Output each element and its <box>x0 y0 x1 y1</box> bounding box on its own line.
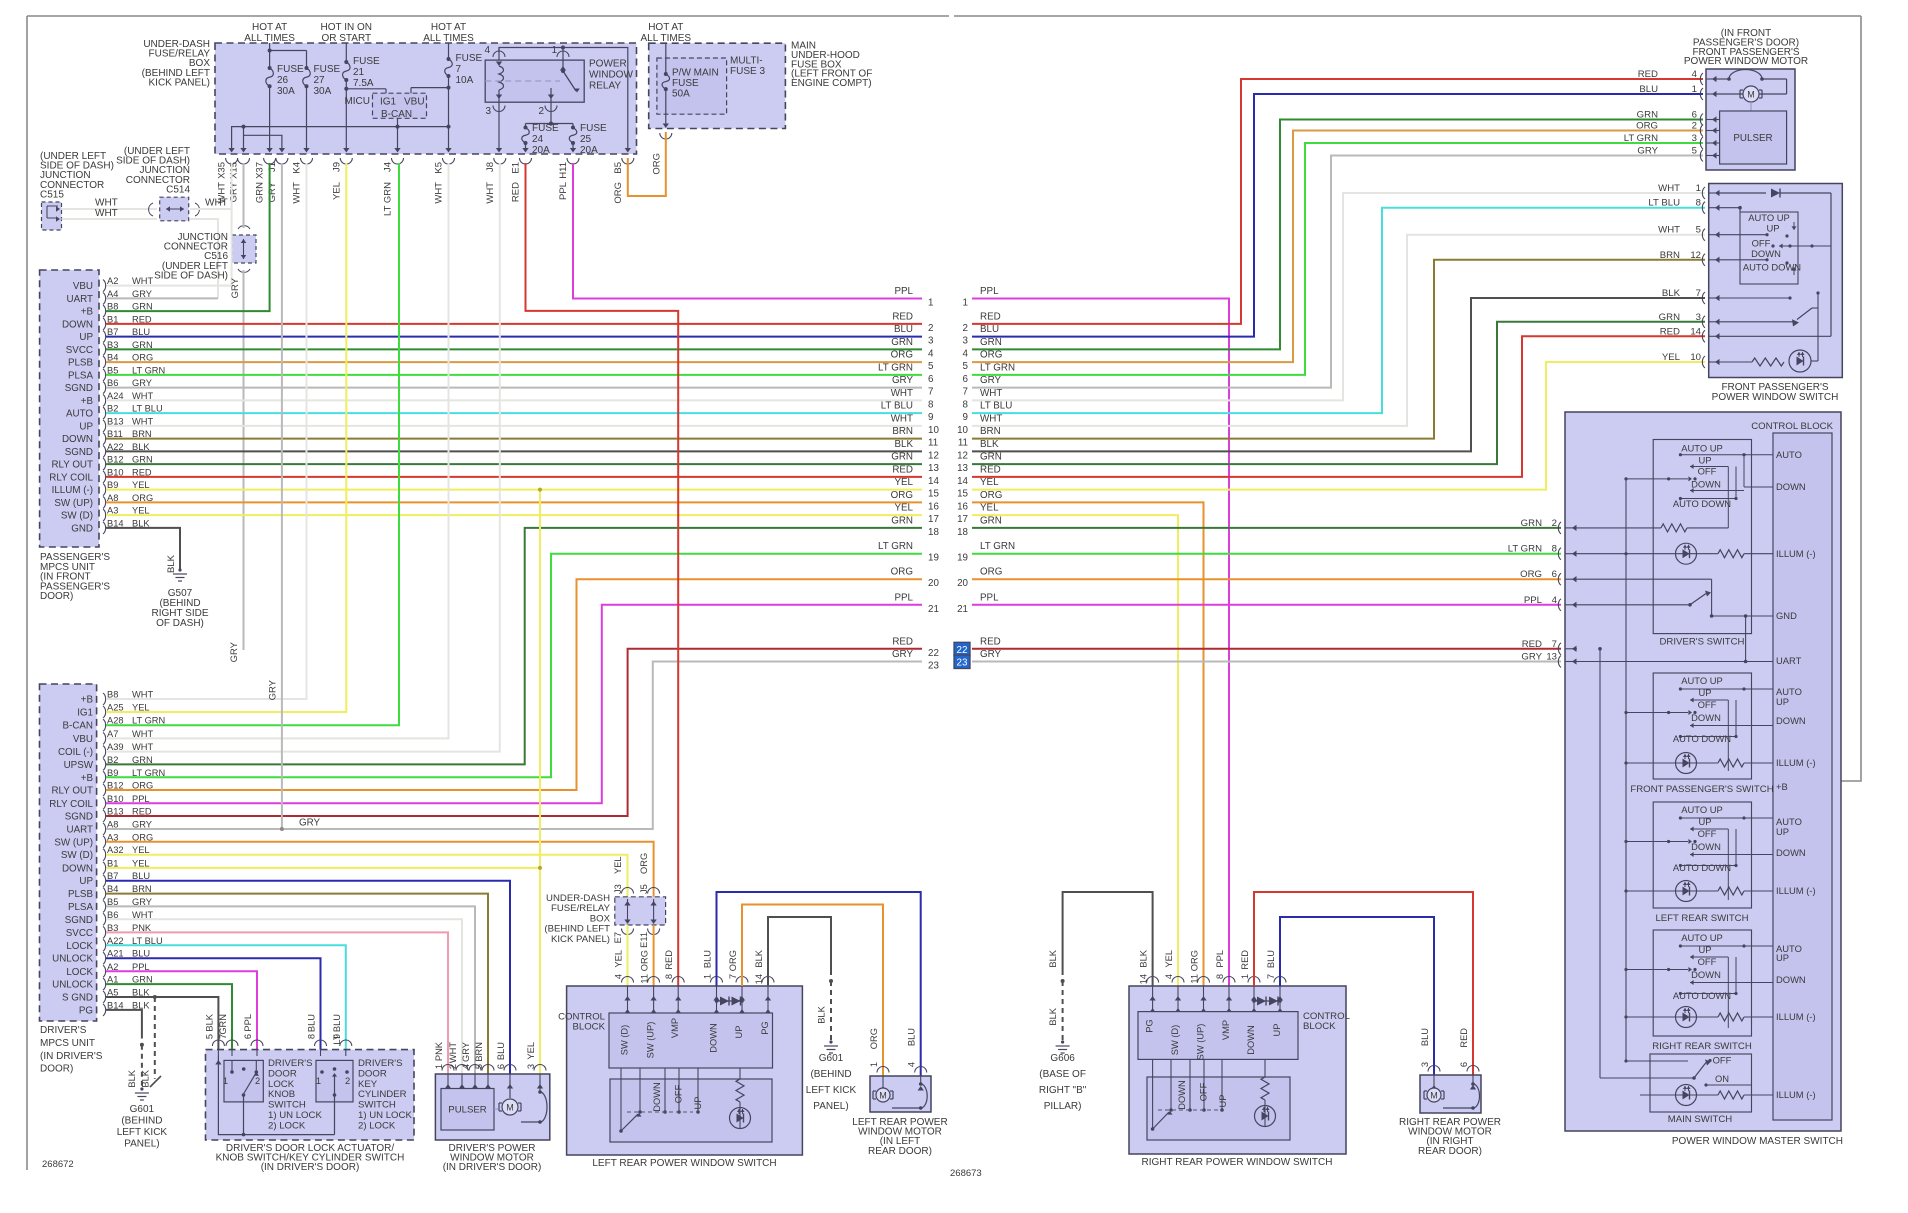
svg-text:AUTO UP: AUTO UP <box>1681 804 1723 815</box>
wire ORG 20 (right page run) <box>972 578 1561 580</box>
svg-text:G601: G601 <box>130 1104 155 1115</box>
svg-text:20A: 20A <box>580 145 598 156</box>
svg-text:GND: GND <box>1776 610 1797 621</box>
wire fuse 7 output to K5 <box>445 76 451 153</box>
svg-text:268673: 268673 <box>950 1168 982 1179</box>
wire GRN 18 (right page run) <box>972 527 1561 529</box>
svg-text:IG1: IG1 <box>380 97 397 108</box>
svg-text:DOOR: DOOR <box>268 1068 297 1079</box>
wire front passenger switch BLK row <box>1719 296 1792 299</box>
left rear power window motor label <box>852 1117 947 1157</box>
svg-text:DOWN: DOWN <box>1751 248 1781 259</box>
svg-text:5: 5 <box>1692 146 1697 157</box>
resistor and LED (right rear switch illumination) <box>1255 1077 1276 1127</box>
svg-text:1) UN LOCK: 1) UN LOCK <box>268 1110 322 1121</box>
svg-text:RED: RED <box>1240 950 1250 970</box>
svg-text:BLK: BLK <box>127 1069 137 1087</box>
wire from driver MPCS pin B5 <box>106 906 475 1074</box>
svg-text:UPSW: UPSW <box>64 760 94 771</box>
pin B7 (UP/BLU) of passenger MPCS unit <box>79 327 150 343</box>
node 10 (left page edge) <box>891 413 940 436</box>
svg-text:AUTO DOWN: AUTO DOWN <box>1673 862 1731 873</box>
svg-text:BLK: BLK <box>140 1069 150 1087</box>
wire ORG 16 (passenger MPCS A8 to inter-page node 16) <box>106 501 922 503</box>
left rear switch internal pin stubs <box>625 992 771 1013</box>
svg-text:PLSB: PLSB <box>68 889 94 900</box>
svg-text:RELAY: RELAY <box>589 81 621 92</box>
svg-text:13: 13 <box>957 463 968 474</box>
svg-text:WHT: WHT <box>448 1042 458 1063</box>
svg-text:ORG: ORG <box>1636 121 1658 132</box>
control block label ILLUM (-) <box>1776 548 1816 559</box>
svg-text:LT BLU: LT BLU <box>881 401 913 412</box>
front passenger power window motor box <box>1706 69 1795 170</box>
svg-text:J3: J3 <box>613 884 623 894</box>
pin B6 (SGND/GRY) of passenger MPCS unit <box>65 378 152 394</box>
svg-text:HOT AT: HOT AT <box>648 22 683 33</box>
svg-text:ILLUM (-): ILLUM (-) <box>1776 757 1816 768</box>
ground G606 (base of right B pillar) <box>1039 1040 1087 1112</box>
sheet number 268673 <box>950 1168 982 1179</box>
pin 7 (ORG) of left rear power window switch <box>728 950 748 1001</box>
svg-text:DOWN: DOWN <box>1776 847 1806 858</box>
svg-text:M: M <box>1747 89 1755 99</box>
pin X37 (GRN) of under-dash fuse/relay box <box>255 158 276 203</box>
pin B7 (UP/BLU) of driver MPCS unit <box>79 871 150 887</box>
svg-text:BLK: BLK <box>980 439 999 450</box>
pin 8 (PPL) of right rear power window switch <box>1215 950 1235 1001</box>
wire YEL E7 to left rear switch pin 4 <box>627 925 629 986</box>
svg-text:DOWN: DOWN <box>1691 969 1721 980</box>
svg-text:GRY: GRY <box>230 277 241 298</box>
wire from driver MPCS pin A22 <box>106 945 346 1049</box>
svg-text:5: 5 <box>928 361 934 372</box>
svg-text:8: 8 <box>1552 544 1557 555</box>
svg-text:BRN: BRN <box>474 1042 484 1062</box>
wire from driver MPCS pin B6 <box>106 919 462 1074</box>
wire from driver MPCS pin A21 <box>106 958 321 1049</box>
svg-text:DOWN: DOWN <box>1177 1080 1187 1109</box>
svg-text:3: 3 <box>928 336 934 347</box>
wire from driver MPCS pin A8 <box>106 662 922 830</box>
node 22 (right page edge, highlighted) <box>954 636 1001 656</box>
svg-text:MULTI-: MULTI- <box>730 56 763 67</box>
wire YEL 17 (right page run) <box>972 515 1178 986</box>
svg-text:GRY: GRY <box>299 818 321 829</box>
relay pin 1 <box>551 45 569 71</box>
pin A22 (LOCK/LT BLU) of driver MPCS unit <box>66 936 162 952</box>
svg-text:1: 1 <box>928 298 933 309</box>
svg-text:4: 4 <box>907 1062 917 1067</box>
svg-text:DOWN: DOWN <box>62 319 93 330</box>
svg-text:SVCC: SVCC <box>66 345 93 356</box>
relay pin 2 <box>538 102 557 123</box>
svg-text:WHT: WHT <box>205 198 228 209</box>
bus wire RED pin7 to main switch <box>1577 647 1602 1078</box>
svg-text:SIDE OF DASH): SIDE OF DASH) <box>154 270 228 281</box>
wire BLK B14 to ground G507 <box>106 528 180 573</box>
svg-text:BRN: BRN <box>1660 250 1680 261</box>
svg-text:GND: GND <box>71 523 93 534</box>
pin B6 (SGND/WHT) of driver MPCS unit <box>65 910 154 926</box>
relay coil <box>496 66 504 102</box>
svg-text:+B: +B <box>81 307 94 318</box>
control block label AUTO <box>1776 449 1802 460</box>
wire from driver MPCS pin A32 <box>106 855 628 897</box>
svg-text:SWITCH: SWITCH <box>268 1100 306 1111</box>
svg-text:AUTO UP: AUTO UP <box>1681 932 1723 943</box>
svg-text:SGND: SGND <box>65 812 93 823</box>
node 20 (right page edge) <box>957 567 1002 590</box>
wire fuse 26 output to X37 <box>266 86 272 152</box>
main switch internals <box>1600 1055 1752 1087</box>
svg-text:1: 1 <box>1696 183 1701 194</box>
ground G601 (left kick panel) <box>806 1040 857 1112</box>
power window master switch label <box>1672 1136 1843 1147</box>
svg-text:RLY COIL: RLY COIL <box>49 799 93 810</box>
svg-text:GRY: GRY <box>461 1042 471 1062</box>
svg-text:2: 2 <box>1692 121 1697 132</box>
under-dash fuse/relay box (lower) label <box>544 893 610 945</box>
svg-text:1: 1 <box>1240 974 1250 979</box>
pin 13 (GRY) of power window master switch <box>1521 652 1577 668</box>
relay top rail to B5 <box>499 46 631 153</box>
svg-text:RED: RED <box>511 182 522 202</box>
svg-text:AUTO UP: AUTO UP <box>1748 212 1790 223</box>
node 20 (left page edge) <box>891 567 940 590</box>
svg-text:8: 8 <box>664 974 674 979</box>
svg-text:1: 1 <box>703 974 713 979</box>
node 21 (right page edge) <box>957 592 999 615</box>
svg-text:GRY: GRY <box>980 649 1002 660</box>
wire BRN 11 (passenger MPCS B11 to inter-page node 11) <box>106 438 922 440</box>
node 2 (right page edge) <box>963 311 1001 334</box>
svg-text:GRN: GRN <box>891 337 913 348</box>
svg-text:+B: +B <box>81 773 94 784</box>
svg-text:SW (UP): SW (UP) <box>646 1022 656 1059</box>
driver switch section internals <box>1626 443 1773 528</box>
pin 14 (BLK) of left rear power window switch <box>754 949 774 1000</box>
right rear power window motor box <box>1420 1075 1481 1113</box>
svg-text:10: 10 <box>928 425 939 436</box>
svg-text:POWER WINDOW SWITCH: POWER WINDOW SWITCH <box>1712 392 1839 403</box>
svg-text:8: 8 <box>1696 198 1701 209</box>
resistor (driver switch auto-down) <box>1577 524 1728 532</box>
svg-text:BLU: BLU <box>1266 950 1276 968</box>
control block label DOWN <box>1776 974 1806 985</box>
svg-text:9: 9 <box>332 1034 342 1039</box>
node 13 (right page edge) <box>957 452 1002 475</box>
control block label AUTO <box>1776 816 1802 827</box>
svg-text:18: 18 <box>957 527 968 538</box>
svg-text:BLK: BLK <box>204 1013 214 1031</box>
wire from driver MPCS pin A5 <box>106 997 218 1050</box>
driver MPCS unit label <box>40 1025 103 1075</box>
svg-text:PULSER: PULSER <box>1733 133 1772 144</box>
svg-text:RED: RED <box>980 464 1001 475</box>
svg-text:B-CAN: B-CAN <box>63 721 93 732</box>
node 6 (left page edge) <box>878 362 934 385</box>
wire BLK B14 to ground G601 <box>127 1043 144 1089</box>
svg-text:DOWN: DOWN <box>1691 841 1721 852</box>
right rear switch illumination LED <box>1624 1007 1773 1028</box>
wire WHT 10 (right page run) <box>972 235 1705 426</box>
left rear control block label <box>558 1012 606 1033</box>
svg-text:RED: RED <box>892 636 913 647</box>
svg-text:6: 6 <box>1692 110 1697 121</box>
svg-text:(BEHIND: (BEHIND <box>121 1116 162 1127</box>
svg-text:4: 4 <box>963 348 969 359</box>
svg-text:20A: 20A <box>532 145 550 156</box>
svg-text:BLK: BLK <box>1662 288 1681 299</box>
driver door lock actuator box <box>206 1050 415 1140</box>
pin J9 (YEL) of under-dash fuse/relay box <box>331 158 352 200</box>
node 14 (right page edge) <box>957 464 1001 487</box>
pin 3 (GRN) of front passenger power window switch <box>1659 312 1720 328</box>
left rear switch control block <box>609 1013 773 1068</box>
pin B2 (UPSW/GRN) of driver MPCS unit <box>64 755 153 771</box>
control block label +B <box>1776 781 1788 792</box>
svg-text:BLU: BLU <box>703 950 713 968</box>
svg-text:DOWN: DOWN <box>1776 974 1806 985</box>
pin B8 (+B/GRN) of passenger MPCS unit <box>81 302 153 318</box>
wire LT BLU 9 (passenger MPCS B2 to inter-page node 9) <box>106 412 922 414</box>
node 13 (left page edge) <box>891 452 939 475</box>
node 14 (left page edge) <box>892 464 939 487</box>
svg-text:7: 7 <box>218 1034 228 1039</box>
svg-text:LT GRN: LT GRN <box>1508 544 1542 555</box>
svg-text:J5: J5 <box>639 884 649 894</box>
svg-text:AUTO UP: AUTO UP <box>1681 675 1723 686</box>
svg-text:GRY: GRY <box>980 375 1002 386</box>
svg-text:SWITCH: SWITCH <box>358 1100 396 1111</box>
node HOT IN ON OR START (fuse 21 feed) <box>321 22 372 44</box>
wire WHT C514 to A4 column <box>190 219 218 298</box>
wire PPL 1 (H11 relay output to inter-page node 1) <box>573 163 922 299</box>
svg-text:GRN: GRN <box>980 337 1002 348</box>
wire GRN 13 (passenger MPCS B12 to inter-page node 13) <box>106 463 922 465</box>
svg-text:WHT: WHT <box>980 388 1002 399</box>
wire BLK 12 (right page run) <box>972 298 1705 451</box>
svg-text:14: 14 <box>1139 974 1149 984</box>
control block label GND <box>1776 610 1797 621</box>
svg-text:OFF: OFF <box>1698 699 1717 710</box>
left rear switch name label <box>1655 913 1748 924</box>
pin B5 (PLSA/GRY) of driver MPCS unit <box>68 897 152 913</box>
pin B10 (RLY COIL/RED) of passenger MPCS unit <box>49 467 152 483</box>
node 15 (right page edge) <box>957 477 999 500</box>
svg-text:UP: UP <box>79 421 93 432</box>
LED and resistor (main switch illumination) <box>1640 1085 1773 1106</box>
svg-text:UP: UP <box>1218 1095 1228 1108</box>
svg-text:268672: 268672 <box>42 1159 74 1170</box>
svg-text:(IN DRIVER'S DOOR): (IN DRIVER'S DOOR) <box>261 1162 360 1173</box>
svg-text:YEL: YEL <box>331 182 342 200</box>
svg-text:BLOCK: BLOCK <box>572 1022 605 1033</box>
svg-text:UART: UART <box>67 294 94 305</box>
svg-text:ORG: ORG <box>1520 569 1542 580</box>
relay contact arm <box>485 69 580 102</box>
svg-text:LT GRN: LT GRN <box>383 182 394 216</box>
wire PPL 1 (right page run) <box>972 299 1229 987</box>
svg-text:C514: C514 <box>166 184 190 195</box>
svg-text:2) LOCK: 2) LOCK <box>268 1120 306 1131</box>
pin 14 (RED) of front passenger power window switch <box>1660 326 1720 342</box>
svg-text:21: 21 <box>353 67 365 78</box>
front passenger switch inner control box <box>1719 206 1831 284</box>
pin J8 (WHT) of under-dash fuse/relay box <box>485 158 506 204</box>
pin 2 (WHT) of driver power window motor <box>448 1042 468 1089</box>
fuse 26 30A <box>266 64 304 97</box>
svg-text:ORG: ORG <box>652 153 663 175</box>
svg-text:WHT: WHT <box>95 198 118 209</box>
svg-text:14: 14 <box>957 476 968 487</box>
svg-text:UP: UP <box>1272 1024 1282 1037</box>
ground G507 <box>151 568 208 629</box>
svg-text:SW (UP): SW (UP) <box>1196 1024 1206 1061</box>
svg-text:RED: RED <box>892 311 913 322</box>
svg-text:YEL: YEL <box>980 477 999 488</box>
svg-text:UP: UP <box>734 1026 744 1039</box>
right rear power window motor label <box>1399 1117 1501 1157</box>
svg-text:SGND: SGND <box>65 383 93 394</box>
wire from driver MPCS pin A3 <box>106 842 654 897</box>
svg-text:DOWN: DOWN <box>1246 1025 1256 1054</box>
svg-text:12: 12 <box>1690 250 1701 261</box>
svg-text:SW (D): SW (D) <box>61 511 93 522</box>
svg-text:BLK: BLK <box>1139 949 1149 967</box>
node 18 (right page edge) <box>957 515 1002 538</box>
wire GRY 23 (right page run) <box>972 661 1561 663</box>
wire UART row (master switch) <box>1577 660 1773 664</box>
pin 6 (GRN) of front passenger power window motor <box>1637 110 1717 126</box>
resistor and LED (left rear switch illumination) <box>730 1079 751 1129</box>
pin A25 (IG1/YEL) of driver MPCS unit <box>77 703 149 719</box>
control block label DOWN <box>1776 847 1806 858</box>
svg-text:MAIN SWITCH: MAIN SWITCH <box>1668 1114 1733 1125</box>
svg-text:PPL: PPL <box>1215 950 1225 968</box>
wire RED 14 (passenger MPCS B10 to inter-page node 14) <box>106 476 922 478</box>
wire front passenger switch UP contact row <box>1719 233 1769 236</box>
svg-text:GRN: GRN <box>891 515 913 526</box>
svg-text:UNLOCK: UNLOCK <box>52 980 93 991</box>
svg-text:RED: RED <box>1660 326 1680 337</box>
svg-text:4: 4 <box>484 45 490 56</box>
svg-text:2: 2 <box>1552 518 1557 529</box>
wire ORG 16 (right page run) <box>972 502 1204 986</box>
fuse 27 30A <box>303 64 341 97</box>
node 15 (left page edge) <box>894 477 939 500</box>
svg-text:UP: UP <box>1776 826 1789 837</box>
wire WHT C514 to X35 column <box>190 198 232 210</box>
pin B9 (+B/LT GRN) of driver MPCS unit <box>81 768 166 784</box>
svg-text:LT BLU: LT BLU <box>1648 198 1680 209</box>
svg-text:4: 4 <box>1692 69 1698 80</box>
pin B5 (PLSA/LT GRN) of passenger MPCS unit <box>68 365 165 381</box>
left rear switch sub-box (master switch) <box>1653 802 1751 908</box>
svg-text:OFF: OFF <box>1698 956 1717 967</box>
motor M4 (front passenger window) <box>1716 70 1787 112</box>
left rear power window motor box <box>870 1076 931 1112</box>
wire ORG P/W main fuse to B5 <box>628 132 666 196</box>
svg-text:A2: A2 <box>107 276 118 286</box>
LED and resistor (driver switch illumination) <box>1577 543 1773 564</box>
control block label UP <box>1776 952 1789 963</box>
svg-text:MPCS UNIT: MPCS UNIT <box>40 1038 95 1049</box>
node 17 (right page edge) <box>957 503 999 525</box>
front passenger power window motor label (location) <box>1684 28 1808 67</box>
svg-text:DOOR: DOOR <box>358 1068 387 1079</box>
svg-text:DRIVER'S: DRIVER'S <box>40 1025 87 1036</box>
svg-text:ORG: ORG <box>980 350 1002 361</box>
svg-text:+B: +B <box>81 396 94 407</box>
svg-text:5: 5 <box>474 1064 484 1069</box>
pin B13 (SGND/RED) of driver MPCS unit <box>65 807 152 823</box>
svg-text:2) LOCK: 2) LOCK <box>358 1120 396 1131</box>
svg-text:H11: H11 <box>558 162 569 179</box>
pin 4 (RED) of front passenger power window motor <box>1638 69 1717 85</box>
pin 5 (GRY) of front passenger power window motor <box>1637 146 1716 162</box>
pin X15 (GRY) of under-dash fuse/relay box <box>229 158 250 202</box>
wire BLK right rear switch PG to ground G606 <box>1048 892 1153 1041</box>
pin 4 (GRY) of driver power window motor <box>461 1042 481 1089</box>
svg-text:4: 4 <box>614 974 624 979</box>
control block label ILLUM (-) <box>1776 1089 1816 1100</box>
left rear control block pin names <box>620 1018 771 1058</box>
svg-text:WHT: WHT <box>1658 225 1680 236</box>
pin A3 (SW (D)/YEL) of passenger MPCS unit <box>61 506 150 522</box>
control block label AUTO <box>1776 686 1802 697</box>
svg-text:17: 17 <box>957 514 968 525</box>
svg-text:AUTO DOWN: AUTO DOWN <box>1673 733 1731 744</box>
svg-text:6: 6 <box>1552 569 1557 580</box>
main switch label <box>1668 1114 1733 1125</box>
svg-text:12: 12 <box>928 450 939 461</box>
svg-text:OFF: OFF <box>674 1084 684 1103</box>
right rear switch internal wires <box>1151 1059 1265 1130</box>
pin 6 (BLU) of driver power window motor <box>496 1042 516 1089</box>
svg-text:ALL TIMES: ALL TIMES <box>641 33 692 44</box>
main under-hood fuse box label <box>791 41 872 90</box>
right rear power window switch box <box>1129 986 1346 1154</box>
pin A8 (SW (UP)/ORG) of passenger MPCS unit <box>54 493 153 509</box>
wire GRN 4 (passenger MPCS B3 to inter-page node 4) <box>106 348 922 350</box>
svg-text:ORG: ORG <box>980 490 1002 501</box>
wire P/W main fuse output <box>660 89 672 139</box>
control block label DOWN <box>1776 715 1806 726</box>
svg-text:SGND: SGND <box>65 915 93 926</box>
node 7 (left page edge) <box>892 375 934 398</box>
svg-text:RED: RED <box>1638 69 1658 80</box>
svg-text:AUTO UP: AUTO UP <box>1681 443 1723 454</box>
knob switch label <box>268 1058 322 1131</box>
svg-text:ORG: ORG <box>613 182 624 204</box>
svg-text:13: 13 <box>928 463 939 474</box>
left rear switch inner sub-box <box>610 1079 772 1142</box>
svg-text:DOWN: DOWN <box>62 434 93 445</box>
svg-text:X15: X15 <box>229 162 240 179</box>
svg-text:YEL: YEL <box>614 950 624 968</box>
wire MICU VBU pin to fuse 7 <box>411 88 449 94</box>
wire ORG 5 (passenger MPCS B4 to inter-page node 5) <box>106 361 922 363</box>
node 8 (left page edge) <box>891 388 934 411</box>
pin 9 (LT BLU) of door lock actuator <box>332 1014 352 1065</box>
node 11 (left page edge) <box>892 426 938 449</box>
svg-text:8: 8 <box>307 1034 317 1039</box>
svg-text:LOCK: LOCK <box>66 967 93 978</box>
svg-text:8: 8 <box>928 399 934 410</box>
sheet number 268672 <box>42 1159 74 1170</box>
